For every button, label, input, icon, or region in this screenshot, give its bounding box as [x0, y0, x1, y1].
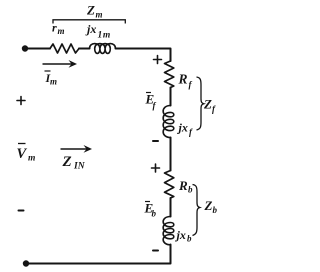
polarity - (bottom of E_f): [153, 140, 158, 142]
label R_f: [178, 72, 193, 90]
wire: bottom-right vertical and bottom horizontal: [27, 245, 171, 264]
svg-text:f: f: [189, 80, 193, 90]
svg-text:Z: Z: [62, 154, 72, 170]
svg-text:r: r: [52, 21, 57, 35]
label I_m (with overbar): [45, 71, 58, 87]
svg-text:IN: IN: [73, 162, 86, 172]
svg-text:jx: jx: [85, 22, 96, 36]
label jx_1m: [85, 22, 111, 41]
label jx_b: [175, 228, 193, 244]
svg-text:m: m: [96, 10, 103, 20]
inductor jx_1m: [90, 44, 116, 54]
svg-text:Z: Z: [204, 198, 213, 213]
polarity + (top of E_f): [154, 56, 162, 64]
wire: top-left horizontal: [27, 48, 50, 50]
svg-text:b: b: [213, 205, 218, 215]
node: bottom-left input terminal: [23, 260, 29, 266]
label Z_f: [203, 97, 216, 115]
svg-text:R: R: [178, 72, 188, 87]
label E_f (with overbar): [145, 92, 157, 111]
svg-text:V: V: [17, 146, 28, 162]
polarity - (bottom of E_b): [153, 250, 158, 252]
wire: between r_m and jx_1m: [79, 48, 90, 50]
arrow I_m: [43, 60, 78, 68]
label E_b (with overbar): [144, 201, 157, 219]
svg-text:jx: jx: [177, 121, 188, 135]
svg-text:b: b: [152, 209, 157, 219]
inductor jx_f: [163, 106, 174, 138]
label V_m (with overbar): [17, 144, 36, 164]
wire: top-right horizontal with corner: [116, 49, 171, 62]
brace Z_f: [197, 77, 204, 130]
svg-text:1m: 1m: [98, 31, 111, 41]
svg-text:m: m: [58, 26, 65, 36]
inductor jx_b: [163, 217, 174, 245]
resistor R_f: [165, 61, 174, 88]
arrow Z_IN: [61, 145, 93, 153]
label Z_b: [204, 198, 218, 215]
svg-text:jx: jx: [175, 228, 186, 242]
svg-text:f: f: [189, 127, 193, 137]
bracket over Z_m: [53, 20, 125, 24]
svg-text:m: m: [50, 77, 57, 87]
wire: between R_b and jx_b: [170, 198, 172, 217]
label r_m: [52, 21, 65, 37]
resistor r_m: [50, 44, 79, 53]
svg-text:m: m: [28, 154, 35, 164]
label Z_IN: [62, 154, 86, 172]
resistor R_b: [165, 171, 174, 199]
svg-text:f: f: [212, 104, 216, 114]
label Z_m: [86, 3, 103, 20]
svg-text:b: b: [187, 234, 192, 244]
label R_b: [178, 178, 193, 195]
polarity + (left input): [17, 97, 25, 105]
svg-text:b: b: [188, 185, 193, 195]
svg-text:R: R: [178, 178, 188, 193]
svg-text:Z: Z: [86, 3, 95, 18]
polarity - (left input): [19, 210, 24, 212]
wire: between R_f and jx_f: [170, 88, 172, 106]
label jx_f: [177, 121, 194, 138]
svg-text:Z: Z: [203, 97, 212, 112]
svg-text:f: f: [153, 101, 157, 111]
wire: between jx_f and R_b: [170, 138, 172, 171]
brace Z_b: [193, 185, 200, 236]
node: top-left input terminal: [22, 45, 28, 51]
polarity + (top of E_b): [152, 164, 160, 172]
